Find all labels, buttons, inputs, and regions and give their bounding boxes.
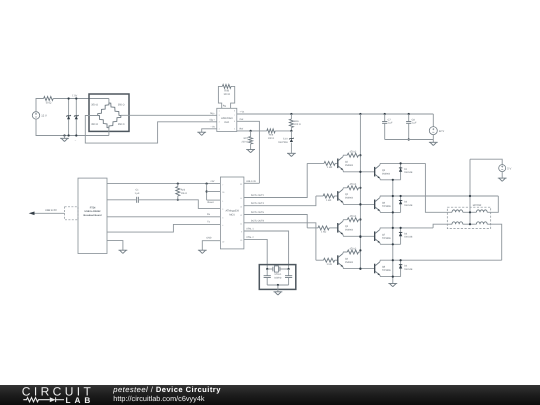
wire digital input stage 3 [307, 227, 337, 229]
svg-text:350 Ω: 350 Ω [91, 104, 98, 107]
wire collector resistor stage 3 [343, 220, 361, 222]
wire collector bus stage 2 [380, 196, 499, 198]
FTDI U3 breakout body [78, 178, 107, 253]
svg-text:350 Ω: 350 Ω [118, 104, 125, 107]
wire ANLG IN [244, 182, 260, 184]
wire DGTL OUT4 [244, 196, 316, 206]
pin numbers U4 [222, 183, 242, 243]
dashed USB connector [65, 207, 78, 220]
capacitor C7 1uF [382, 113, 393, 140]
svg-text:470 Ω: 470 Ω [350, 183, 357, 186]
resistor R1k base stage 3 [318, 226, 329, 234]
ground G6 [388, 284, 397, 287]
bridge resistor R2 350 top-left [91, 103, 109, 116]
svg-text:GND: GND [206, 237, 211, 240]
svg-text:TIP3055: TIP3055 [382, 269, 391, 272]
zener diode D1 [66, 97, 71, 136]
svg-text:1N4148: 1N4148 [404, 204, 413, 207]
svg-text:2N3904: 2N3904 [345, 229, 354, 232]
resistor R1k base stage 4 [324, 258, 335, 266]
wire collector resistor stage 2 [343, 188, 361, 190]
svg-text:TIP3055: TIP3055 [382, 205, 391, 208]
wire 12V vertical rail [359, 113, 361, 270]
motor M1 box [447, 204, 490, 228]
net label XTAL 1 [246, 228, 254, 231]
net label ANLG IN [246, 180, 256, 183]
wire cap bottom rail [385, 139, 434, 141]
svg-text:11: 11 [240, 197, 242, 200]
wire emitter to power base stage 2 [343, 202, 374, 205]
inductor L2 winding [476, 210, 490, 212]
svg-text:8: 8 [234, 110, 235, 113]
svg-text:+ Vs: + Vs [240, 111, 246, 114]
ground G3 [246, 150, 255, 153]
wire Ref [237, 130, 267, 132]
pin numbers U1 [219, 110, 235, 131]
svg-text:7: 7 [234, 114, 235, 117]
wire emitter bus stage 4 [380, 275, 401, 277]
svg-text:470 Ω: 470 Ω [350, 247, 357, 250]
svg-text:1N4733A: 1N4733A [278, 141, 288, 144]
svg-text:10k Ω: 10k Ω [181, 192, 188, 195]
net label Tx [207, 220, 210, 223]
zener diode D5 5.1V [278, 130, 293, 154]
crystal oscillator box [259, 265, 296, 290]
transistor Q5 2N3904 [375, 165, 391, 178]
wire digital input stage 1 [307, 162, 337, 164]
svg-text:Ref: Ref [240, 128, 244, 131]
svg-text:3: 3 [222, 217, 223, 220]
resistor R23 pullup [176, 183, 187, 201]
svg-text:220 Ω: 220 Ω [294, 123, 301, 126]
svg-text:22: 22 [222, 240, 224, 243]
bridge resistor R5 350 bottom-right [109, 116, 125, 128]
svg-text:1 μF: 1 μF [388, 122, 393, 125]
transistor Q8 TIP3055 [375, 262, 392, 275]
svg-text:28: 28 [222, 191, 224, 194]
svg-text:USB to RS232: USB to RS232 [85, 210, 102, 213]
wire emitter to power base stage 1 [343, 170, 374, 173]
wire Q5 to motor A1 [425, 163, 447, 212]
wire collector resistor stage 1 [343, 155, 361, 157]
svg-text:3: 3 [219, 121, 220, 124]
diode D3 1N4148 [399, 227, 413, 245]
ground G8 [198, 250, 207, 253]
label XTAL1 16MHz [274, 273, 282, 279]
net label DGTL OUT8 [251, 219, 265, 222]
wire reset pullup branch [206, 183, 221, 201]
wire motor center tap [469, 159, 471, 225]
wire MCU gnd [202, 241, 220, 251]
wire DGTL OUT6 [244, 215, 307, 228]
wire Q6 to motor A2 [491, 196, 499, 212]
resistor R6 gain 100 ohm [222, 84, 231, 96]
svg-text:MCU: MCU [229, 213, 235, 216]
wire -Vs to ground [202, 129, 217, 132]
resistor R470 stage 1 [347, 151, 358, 158]
svg-text:2: 2 [222, 208, 223, 211]
inductor L4 winding [476, 222, 490, 224]
svg-text:+5V: +5V [210, 180, 215, 183]
resistor R7 to ground [242, 130, 253, 150]
svg-text:12 V: 12 V [439, 130, 445, 133]
inductor L1 winding [447, 210, 476, 212]
svg-text:XTAL 1: XTAL 1 [246, 228, 254, 231]
svg-text:100 Ω: 100 Ω [268, 137, 275, 140]
resistor R1k base stage 2 [323, 194, 334, 202]
svg-text:ANLG IN: ANLG IN [246, 180, 256, 183]
net label DGTL OUT6 [251, 211, 265, 214]
net label Out [240, 118, 244, 121]
resistor R470 stage 2 [347, 183, 358, 190]
svg-text:DGTL OUT6: DGTL OUT6 [251, 211, 265, 214]
svg-text:petesteel / Device Circuitry: petesteel / Device Circuitry [112, 385, 221, 394]
svg-text:100 Ω: 100 Ω [223, 93, 230, 96]
svg-text:7.5V: 7.5V [72, 95, 78, 98]
net label GND [206, 237, 211, 240]
ground G2 [197, 132, 206, 135]
svg-text:23: 23 [240, 183, 242, 186]
ground G7 [498, 178, 507, 181]
svg-text:XTAL 2: XTAL 2 [246, 236, 254, 239]
wire Out drop to ADC [237, 121, 260, 183]
wire Rg loop left [218, 86, 222, 108]
ground G9 [119, 250, 128, 253]
wire +5V net [107, 183, 220, 185]
wire emitter to power base stage 3 [343, 234, 374, 237]
wire collector resistor stage 4 [343, 252, 361, 254]
crystal X1 [266, 266, 290, 272]
wire emitter to power base stage 4 [343, 267, 374, 270]
transistor Q6 TIP3055 [375, 198, 392, 211]
capacitor C8 1uF [406, 113, 417, 141]
net label 7.5V [72, 95, 78, 98]
wire crystal gnd [267, 284, 288, 292]
net label +5V [210, 180, 215, 183]
svg-text:http://circuitlab.com/c6vyy4k: http://circuitlab.com/c6vyy4k [113, 394, 205, 403]
voltage source V3 5V [470, 159, 512, 178]
svg-text:350 Ω: 350 Ω [91, 123, 98, 126]
svg-text:9: 9 [241, 231, 242, 234]
wire DTR line [107, 200, 220, 209]
svg-text:1: 1 [219, 110, 220, 113]
svg-text:13: 13 [240, 214, 242, 217]
net label DGTL OUT4 [251, 202, 265, 205]
svg-text:2N3904: 2N3904 [345, 197, 354, 200]
svg-text:6: 6 [234, 120, 235, 123]
MCU U4 ATMega328 body [220, 177, 244, 249]
svg-text:DGTL OUT8: DGTL OUT8 [251, 219, 265, 222]
resistor R470 stage 3 [347, 215, 358, 222]
wire Q7 to motor B1 [433, 224, 447, 228]
wire XTAL 2 [244, 239, 267, 269]
footer bar [0, 385, 540, 405]
wire V1 top to R1 [36, 99, 44, 112]
diode D1 1N4148 [399, 162, 413, 180]
resistor R8 series ref [267, 129, 275, 140]
op-amp U1 AD620AN body [217, 108, 237, 131]
svg-text:2N3904: 2N3904 [345, 261, 354, 264]
net label Ref [240, 128, 244, 131]
svg-text:4: 4 [219, 128, 220, 131]
USB to PC arrow [29, 209, 65, 215]
svg-text:1N4148: 1N4148 [404, 268, 413, 271]
wire XTAL 1 [244, 231, 289, 269]
wire collector bus stage 3 [380, 228, 433, 230]
strain gauge bridge box [89, 94, 129, 131]
wire bridge left tap to Sig+ [85, 116, 217, 144]
diode D2 1N4148 [399, 195, 413, 213]
wire Rg loop right [231, 86, 235, 108]
zener diode D2 [74, 97, 79, 136]
bridge resistor R4 350 bottom-left [91, 116, 109, 128]
ground G10 [274, 292, 283, 295]
wire Rx net [107, 216, 220, 218]
wire emitter bus stage 3 [380, 243, 401, 245]
svg-text:1 μF: 1 μF [135, 192, 140, 195]
logo resistor squiggle [23, 398, 50, 402]
svg-text:MOTOR: MOTOR [473, 204, 482, 207]
net label Rx [207, 213, 211, 216]
svg-text:Sig -: Sig - [210, 112, 215, 115]
svg-text:1 μF: 1 μF [412, 122, 417, 125]
wire +Vs rail [237, 113, 433, 115]
resistor R9 from +Vs [289, 113, 300, 131]
net label DGTL OUT2 [251, 194, 265, 197]
transistor Q4 2N3904 [338, 254, 354, 267]
net label Reset [208, 201, 214, 204]
wire emitter bus stage 2 [380, 211, 401, 213]
transistor Q7 TIP3055 [375, 230, 392, 243]
label Rg [223, 104, 227, 107]
svg-text:USB to PC: USB to PC [45, 209, 57, 212]
svg-text:2N3904: 2N3904 [382, 172, 391, 175]
svg-text:5: 5 [234, 128, 235, 131]
svg-text:Reset: Reset [208, 201, 214, 204]
svg-text:Breakout Board: Breakout Board [84, 214, 102, 217]
svg-text:1N4148: 1N4148 [404, 236, 413, 239]
net label Sig+ [209, 119, 215, 122]
wire collector bus stage 4 [380, 260, 502, 262]
transistor Q3 2N3904 [338, 221, 354, 234]
svg-text:Out: Out [240, 118, 244, 121]
wire Tx net [107, 224, 220, 232]
svg-text:AD620AN: AD620AN [221, 117, 232, 120]
wire V1 bottom rail [36, 119, 109, 135]
svg-text:OA1: OA1 [224, 121, 230, 124]
svg-text:1 kΩ: 1 kΩ [326, 199, 331, 202]
svg-text:220 Ω: 220 Ω [242, 140, 249, 143]
wire digital input stage 2 [316, 195, 337, 197]
wire bridge top feed [108, 99, 110, 104]
ground G4 [287, 153, 296, 156]
bridge resistor R3 350 top-right [109, 103, 125, 116]
svg-text:7: 7 [222, 183, 223, 186]
svg-text:LAB: LAB [66, 396, 95, 405]
svg-text:1N4148: 1N4148 [404, 171, 413, 174]
net label -Vs [211, 126, 216, 129]
svg-text:1 kΩ: 1 kΩ [321, 231, 326, 234]
transistor Q1 2N3904 [338, 157, 354, 170]
diode D4 1N4148 [399, 259, 413, 277]
wire totem chain [392, 179, 394, 284]
capacitor C2 [264, 269, 271, 285]
wire DGTL OUT8 [244, 223, 316, 260]
svg-text:1: 1 [222, 200, 223, 203]
wire DGTL OUT2 [244, 163, 307, 197]
svg-text:4: 4 [222, 224, 223, 227]
wire ref to zener node [275, 130, 291, 132]
svg-text:50 Ω: 50 Ω [46, 102, 52, 105]
svg-text:Sig +: Sig + [209, 119, 215, 122]
ground G5 [429, 142, 438, 145]
svg-text:TIP3055: TIP3055 [382, 237, 391, 240]
svg-text:16MHz: 16MHz [274, 276, 282, 279]
svg-text:5 V: 5 V [507, 167, 511, 170]
svg-text:350 Ω: 350 Ω [118, 123, 125, 126]
net label XTAL 2 [246, 236, 254, 239]
svg-text:ATMega328: ATMega328 [225, 210, 239, 213]
resistor R470 stage 4 [347, 247, 358, 254]
svg-text:470 Ω: 470 Ω [350, 151, 357, 154]
ground G1 [60, 134, 69, 141]
wire emitter bus stage 1 [380, 178, 401, 180]
svg-text:470 Ω: 470 Ω [350, 215, 357, 218]
svg-text:DGTL OUT2: DGTL OUT2 [251, 194, 265, 197]
wire +7.5V rail [53, 98, 109, 100]
wire bridge bottom to rail [108, 128, 110, 136]
net label minus [75, 139, 77, 142]
net label Sig- [210, 112, 215, 115]
svg-text:2N3904: 2N3904 [345, 164, 354, 167]
logo diode [50, 397, 56, 402]
wire digital input stage 4 [316, 259, 337, 261]
resistor R1k base stage 1 [324, 161, 335, 169]
svg-text:2: 2 [219, 114, 220, 117]
svg-text:FTDI: FTDI [90, 206, 96, 209]
svg-text:12 V: 12 V [41, 115, 47, 118]
transistor Q2 2N3904 [338, 189, 354, 202]
svg-text:5.1V: 5.1V [283, 137, 288, 140]
svg-text:14: 14 [240, 223, 242, 226]
svg-text:1 kΩ: 1 kΩ [326, 263, 331, 266]
svg-text:XTAL1: XTAL1 [274, 273, 282, 276]
wire bridge right tap to Sig- [121, 114, 217, 116]
inductor L3 winding [447, 222, 476, 224]
svg-text:DGTL OUT4: DGTL OUT4 [251, 202, 265, 205]
svg-text:1 kΩ: 1 kΩ [327, 166, 332, 169]
capacitor C1 1uF [135, 189, 140, 203]
capacitor C3 [285, 269, 292, 285]
voltage source V1 12V [32, 112, 47, 119]
wire collector bus stage 1 [380, 163, 426, 165]
wire FTDI gnd [107, 241, 123, 251]
resistor R1 50 ohm [44, 97, 54, 105]
svg-text:10: 10 [240, 239, 242, 242]
net label +Vs [240, 111, 246, 114]
svg-text:12: 12 [240, 205, 242, 208]
wire Q8 to motor B2 [491, 224, 502, 260]
voltage source V2 12V [429, 114, 444, 142]
